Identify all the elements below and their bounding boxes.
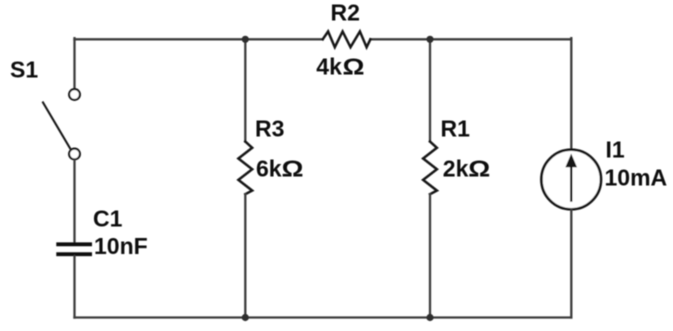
svg-text:Ω: Ω: [468, 156, 490, 182]
current source I1 arrow shaft: [570, 164, 572, 201]
switch S1 bottom contact: [69, 149, 80, 160]
wire left vertical between switch and C1: [73, 160, 75, 242]
wire R1 branch lower: [429, 194, 431, 317]
wire right vertical below I1: [570, 210, 572, 318]
resistor R3 zigzag: [238, 142, 252, 195]
svg-text:Ω: Ω: [343, 53, 365, 79]
switch S1 top contact: [69, 89, 80, 100]
switch S1 lever: [43, 103, 70, 149]
svg-text:R3: R3: [255, 116, 284, 142]
node junction top-left (R3 / top rail): [242, 36, 249, 43]
svg-text:10mA: 10mA: [605, 165, 668, 191]
svg-text:R2: R2: [331, 0, 360, 26]
wire R3 branch lower: [244, 194, 246, 317]
capacitor C1 bottom plate: [56, 252, 92, 256]
svg-text:6k: 6k: [256, 156, 282, 182]
svg-text:I1: I1: [606, 137, 625, 163]
wire left vertical above switch: [73, 38, 75, 88]
wire right vertical above I1: [570, 38, 572, 149]
wire top-right horizontal: [370, 38, 571, 40]
node junction bottom-left (R3 / bottom rail): [242, 314, 249, 321]
resistor R2 zigzag: [323, 32, 371, 48]
wire R1 branch upper: [429, 39, 431, 141]
svg-text:2k: 2k: [443, 156, 469, 182]
svg-text:C1: C1: [93, 206, 123, 232]
wire R3 branch upper: [244, 39, 246, 141]
svg-text:R1: R1: [441, 116, 471, 142]
current source I1 arrowhead: [565, 154, 577, 168]
wire bottom rail: [75, 316, 572, 318]
current source I1 circle: [541, 150, 601, 210]
node junction top-right (R1 / top rail): [426, 36, 433, 43]
node junction bottom-right (R1 / bottom rail): [426, 314, 433, 321]
svg-text:4k: 4k: [316, 53, 342, 79]
capacitor C1 top plate: [56, 242, 92, 246]
resistor R1 zigzag: [423, 142, 437, 195]
wire left vertical below C1: [73, 256, 75, 317]
svg-text:Ω: Ω: [282, 156, 304, 182]
wire top-left horizontal (node A rail): [75, 38, 323, 40]
svg-text:S1: S1: [10, 57, 38, 83]
svg-text:10nF: 10nF: [94, 233, 148, 259]
